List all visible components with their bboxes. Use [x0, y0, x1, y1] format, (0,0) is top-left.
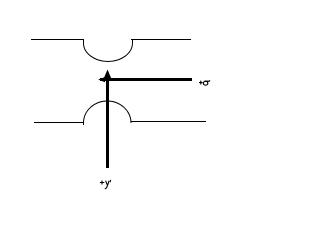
wire bottom-left plate edge [34, 122, 84, 124]
wire bottom-right plate edge [131, 121, 207, 123]
node left end tick of bottom notch [83, 123, 85, 125]
label +y : prime tick [109, 180, 112, 182]
label +sigma : sigma glyph [203, 80, 210, 85]
wire top-left plate edge [31, 39, 84, 41]
label +y : plus sign [100, 181, 104, 185]
top notch arc (semicircular notch cut downward) [84, 43, 133, 61]
node right corner tick of top notch [132, 39, 134, 43]
bottom notch arc (semicircular notch bulging upward) [84, 101, 132, 123]
label +sigma : plus sign [199, 81, 203, 85]
sigma axis arrowhead (points left) [98, 77, 105, 82]
y axis arrowhead (points up) [104, 70, 112, 80]
node left corner tick of top notch [83, 39, 85, 43]
y axis shaft (thick vertical) [106, 74, 109, 168]
wire top-right plate edge [131, 39, 191, 41]
sigma axis shaft (thick horizontal) [100, 78, 192, 81]
label +y : y glyph [105, 181, 109, 189]
